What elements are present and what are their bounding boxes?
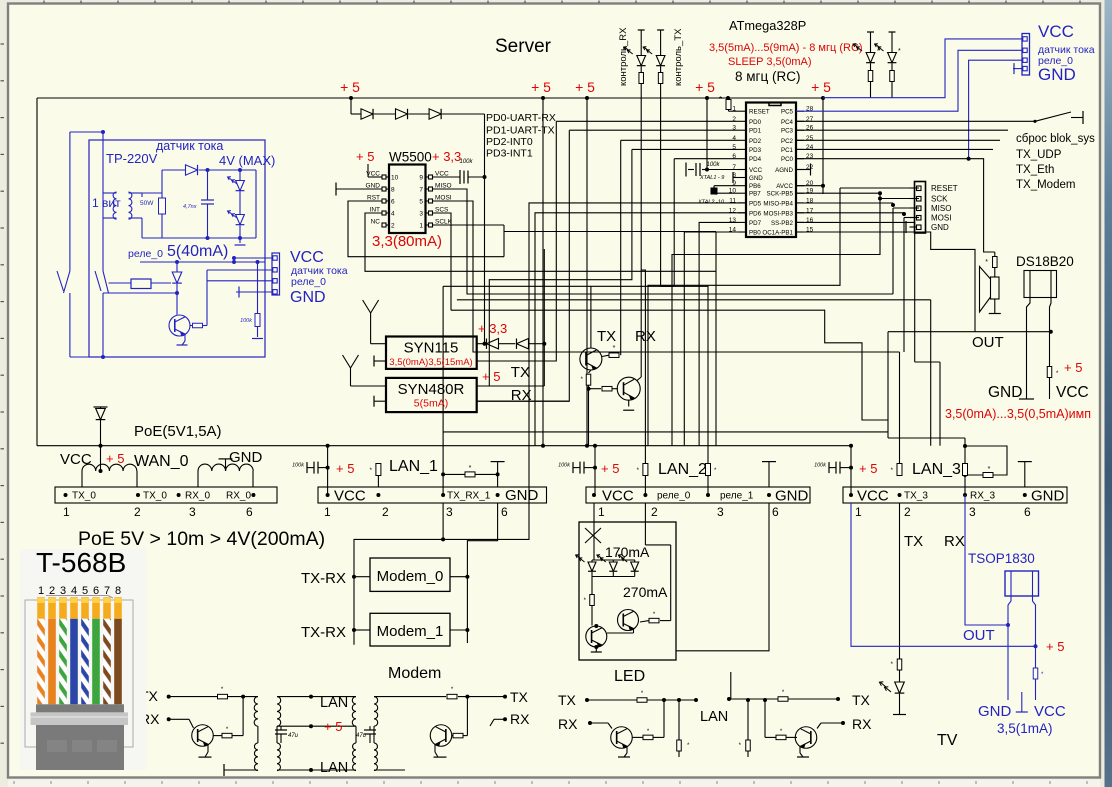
svg-text:+ 5: + 5 <box>340 79 360 95</box>
svg-text:PD6: PD6 <box>749 210 762 217</box>
svg-text:8: 8 <box>391 187 395 194</box>
svg-text:RESET: RESET <box>749 109 770 116</box>
svg-text:+ 5: + 5 <box>482 369 500 384</box>
svg-text:+ 5: + 5 <box>1064 360 1082 375</box>
svg-text:100k: 100k <box>814 463 826 469</box>
svg-text:RX_3: RX_3 <box>970 491 995 502</box>
svg-text:OUT: OUT <box>972 334 1004 351</box>
svg-text:TX: TX <box>852 692 871 708</box>
svg-text:47u: 47u <box>356 733 367 739</box>
svg-text:RX: RX <box>510 711 530 727</box>
svg-text:1: 1 <box>324 505 331 519</box>
svg-text:2: 2 <box>134 505 141 519</box>
svg-text:3: 3 <box>717 505 724 519</box>
svg-text:1: 1 <box>598 505 605 519</box>
svg-text:PD3-INT1: PD3-INT1 <box>486 148 533 160</box>
svg-text:GND: GND <box>978 703 1012 720</box>
svg-text:TX-RX: TX-RX <box>301 570 346 587</box>
svg-text:1 вит: 1 вит <box>92 196 121 210</box>
svg-text:2: 2 <box>391 223 395 230</box>
svg-text:PC3: PC3 <box>781 128 794 135</box>
svg-text:TV: TV <box>937 732 958 749</box>
svg-text:1: 1 <box>419 223 423 230</box>
svg-text:SCK-PB5: SCK-PB5 <box>767 191 794 198</box>
svg-text:9: 9 <box>419 175 423 182</box>
svg-text:VCC: VCC <box>60 451 92 468</box>
svg-text:1: 1 <box>855 505 862 519</box>
svg-text:GND: GND <box>1031 488 1065 505</box>
svg-text:ATmega328P: ATmega328P <box>729 18 806 33</box>
svg-text:PD3: PD3 <box>749 147 762 154</box>
svg-text:4,7nx: 4,7nx <box>183 204 197 210</box>
svg-text:5: 5 <box>419 199 423 206</box>
svg-text:LAN: LAN <box>700 709 728 725</box>
svg-text:TX_Modem: TX_Modem <box>1016 179 1075 191</box>
svg-text:6: 6 <box>501 505 508 519</box>
svg-text:VCC: VCC <box>1056 384 1089 401</box>
svg-text:VCC: VCC <box>1038 22 1074 41</box>
svg-text:7: 7 <box>419 187 423 194</box>
svg-text:MISO: MISO <box>931 204 951 213</box>
svg-text:GND: GND <box>505 487 539 504</box>
svg-text:PD0-UART-RX: PD0-UART-RX <box>486 112 556 124</box>
svg-text:3,3(80mA): 3,3(80mA) <box>372 233 442 250</box>
svg-text:T-568B: T-568B <box>36 547 126 578</box>
svg-text:RESET: RESET <box>931 184 958 193</box>
svg-text:3,5(5mA)...5(9mA) - 8 мгц (RC): 3,5(5mA)...5(9mA) - 8 мгц (RC) <box>709 42 863 54</box>
svg-text:LAN_2: LAN_2 <box>658 461 707 478</box>
svg-text:реле_0: реле_0 <box>291 276 326 288</box>
svg-text:WAN_0: WAN_0 <box>134 453 189 470</box>
svg-text:2: 2 <box>651 505 658 519</box>
svg-text:GND: GND <box>988 384 1022 401</box>
svg-text:VCC: VCC <box>602 488 634 505</box>
svg-text:W5500: W5500 <box>389 150 432 165</box>
svg-text:TX: TX <box>597 328 616 345</box>
svg-text:5(5mA): 5(5mA) <box>414 398 448 410</box>
svg-text:+ 5: + 5 <box>859 461 877 476</box>
svg-text:GND: GND <box>229 449 263 466</box>
svg-text:*: * <box>985 259 988 266</box>
svg-text:PD2: PD2 <box>749 138 762 145</box>
svg-text:SCK: SCK <box>931 195 948 204</box>
svg-text:DS18B20: DS18B20 <box>1016 254 1074 269</box>
svg-text:датчик тока: датчик тока <box>156 139 223 153</box>
svg-text:PD2-INT0: PD2-INT0 <box>486 136 533 148</box>
svg-text:сброс blok_sys: сброс blok_sys <box>1016 133 1095 145</box>
svg-text:GND: GND <box>775 488 809 505</box>
svg-text:Modem_0: Modem_0 <box>377 568 444 585</box>
svg-text:+ 3,3: + 3,3 <box>478 321 507 336</box>
svg-text:3,5(0mA)3,5(15mA): 3,5(0mA)3,5(15mA) <box>389 357 472 368</box>
svg-text:3: 3 <box>419 211 423 218</box>
svg-text:VCC: VCC <box>857 488 889 505</box>
svg-text:+ 5: + 5 <box>324 719 342 734</box>
svg-text:контроль_TX: контроль_TX <box>673 28 684 86</box>
svg-text:+ 5: + 5 <box>531 79 551 95</box>
svg-text:MOSI: MOSI <box>931 214 951 223</box>
svg-text:PB7: PB7 <box>749 191 761 198</box>
svg-text:3: 3 <box>446 505 453 519</box>
svg-text:TX: TX <box>511 364 530 381</box>
svg-text:*: * <box>469 465 472 472</box>
svg-text:*: * <box>898 48 901 55</box>
svg-text:+ 5: + 5 <box>575 79 595 95</box>
svg-text:TX: TX <box>510 689 529 705</box>
svg-text:AGND: AGND <box>775 167 793 174</box>
svg-text:PC4: PC4 <box>781 119 794 126</box>
svg-text:10: 10 <box>391 175 399 182</box>
svg-text:PoE(5V1,5A): PoE(5V1,5A) <box>134 423 222 440</box>
svg-text:RX_0: RX_0 <box>185 491 210 502</box>
svg-text:LAN: LAN <box>320 760 348 776</box>
svg-text:VCC: VCC <box>749 167 763 174</box>
svg-text:+ 5: + 5 <box>601 461 619 476</box>
svg-text:2: 2 <box>382 505 389 519</box>
svg-text:PD4: PD4 <box>749 156 762 163</box>
svg-text:SYN480R: SYN480R <box>398 381 465 398</box>
svg-text:TX: TX <box>558 692 577 708</box>
svg-text:100k: 100k <box>292 463 304 469</box>
svg-text:GND: GND <box>1038 65 1076 84</box>
svg-text:PD5: PD5 <box>749 200 762 207</box>
svg-text:6: 6 <box>772 505 779 519</box>
svg-text:+ 5: + 5 <box>356 149 374 164</box>
svg-text:+ 5: + 5 <box>695 79 715 95</box>
svg-text:OC1A-PB1: OC1A-PB1 <box>762 230 793 237</box>
svg-text:100k: 100k <box>240 318 252 324</box>
svg-text:TP-220V: TP-220V <box>106 151 158 166</box>
svg-text:PC2: PC2 <box>781 138 794 145</box>
svg-text:6: 6 <box>246 505 253 519</box>
svg-text:1: 1 <box>63 505 70 519</box>
svg-text:GND: GND <box>290 289 326 306</box>
svg-text:TX_0: TX_0 <box>143 491 167 502</box>
svg-text:*: * <box>613 345 616 352</box>
svg-text:8: 8 <box>115 585 121 597</box>
svg-text:VCC: VCC <box>1034 703 1066 720</box>
svg-text:8 мгц (RC): 8 мгц (RC) <box>735 69 800 84</box>
svg-text:LED: LED <box>614 668 645 685</box>
svg-text:*: * <box>719 95 722 104</box>
svg-text:SLEEP 3,5(0mA): SLEEP 3,5(0mA) <box>728 56 812 68</box>
svg-text:+ 5: + 5 <box>336 461 354 476</box>
svg-text:TX-RX: TX-RX <box>301 624 346 641</box>
svg-text:4V (MAX): 4V (MAX) <box>219 153 275 168</box>
svg-text:6: 6 <box>1024 505 1031 519</box>
svg-text:TX_UDP: TX_UDP <box>1016 149 1062 161</box>
svg-text:*: * <box>877 48 880 55</box>
svg-text:*: * <box>988 466 991 473</box>
svg-text:PD1-UART-TX: PD1-UART-TX <box>486 125 555 137</box>
svg-text:PC1: PC1 <box>781 147 794 154</box>
svg-text:MOSI-PB3: MOSI-PB3 <box>763 210 793 217</box>
svg-text:LAN_3: LAN_3 <box>912 461 961 478</box>
svg-text:RX: RX <box>558 716 578 732</box>
svg-text:PD1: PD1 <box>749 128 762 135</box>
svg-text:TX_0: TX_0 <box>72 491 96 502</box>
svg-text:PD0: PD0 <box>749 119 762 126</box>
svg-text:PB6: PB6 <box>749 183 761 190</box>
svg-text:TX_RX_1: TX_RX_1 <box>447 491 491 502</box>
svg-text:RX_0: RX_0 <box>226 491 251 502</box>
svg-text:3: 3 <box>969 505 976 519</box>
svg-text:2: 2 <box>904 505 911 519</box>
svg-text:170mA: 170mA <box>605 544 650 560</box>
svg-text:Modem: Modem <box>388 665 441 682</box>
svg-text:TX_3: TX_3 <box>904 491 928 502</box>
svg-text:TSOP1830: TSOP1830 <box>968 551 1035 566</box>
svg-text:270mA: 270mA <box>623 584 668 600</box>
svg-text:100k: 100k <box>558 463 570 469</box>
svg-text:AVCC: AVCC <box>776 183 793 190</box>
svg-text:RX: RX <box>944 533 965 550</box>
svg-text:реле_0: реле_0 <box>128 248 163 260</box>
svg-text:+ 5: + 5 <box>811 79 831 95</box>
svg-text:50W: 50W <box>140 200 154 207</box>
svg-text:GND: GND <box>931 223 949 232</box>
svg-text:5(40mA): 5(40mA) <box>167 243 228 260</box>
svg-text:PC0: PC0 <box>781 156 794 163</box>
svg-text:реле_0: реле_0 <box>657 491 691 502</box>
svg-text:реле_1: реле_1 <box>720 491 754 502</box>
svg-text:MISO-PB4: MISO-PB4 <box>763 200 793 207</box>
svg-text:RX: RX <box>635 328 656 345</box>
svg-text:3,5(1mA): 3,5(1mA) <box>997 721 1053 736</box>
svg-text:TX: TX <box>904 533 923 550</box>
svg-text:+ 3,3: + 3,3 <box>432 149 461 164</box>
svg-text:3,5(0mA)...3,5(0,5mA)имп: 3,5(0mA)...3,5(0,5mA)имп <box>945 407 1091 421</box>
svg-text:VCC: VCC <box>290 249 324 266</box>
svg-text:LAN_1: LAN_1 <box>389 458 438 475</box>
svg-text:VCC: VCC <box>334 488 366 505</box>
svg-text:PD7: PD7 <box>749 220 762 227</box>
svg-text:Server: Server <box>495 36 552 57</box>
svg-text:100k: 100k <box>459 159 473 165</box>
svg-text:TX_Eth: TX_Eth <box>1016 164 1054 176</box>
svg-text:PC5: PC5 <box>781 109 794 116</box>
svg-text:GND: GND <box>749 175 763 182</box>
svg-text:6: 6 <box>391 199 395 206</box>
svg-text:3: 3 <box>189 505 196 519</box>
svg-text:SYN115: SYN115 <box>404 340 459 357</box>
svg-text:100k: 100k <box>706 162 720 168</box>
svg-text:LAN: LAN <box>320 695 348 711</box>
svg-text:SS-PB2: SS-PB2 <box>771 220 794 227</box>
svg-text:1: 1 <box>38 585 44 597</box>
svg-text:+ 5: + 5 <box>1046 639 1064 654</box>
svg-text:Modem_1: Modem_1 <box>377 623 444 640</box>
svg-text:4: 4 <box>391 211 395 218</box>
svg-text:RX: RX <box>852 716 872 732</box>
svg-text:контроль_RX: контроль_RX <box>618 27 629 86</box>
svg-text:OUT: OUT <box>963 627 995 644</box>
svg-text:PB0: PB0 <box>749 230 761 237</box>
svg-text:NC: NC <box>371 219 381 226</box>
svg-text:XTAL1 - 9: XTAL1 - 9 <box>699 175 724 181</box>
svg-text:47u: 47u <box>288 733 299 739</box>
